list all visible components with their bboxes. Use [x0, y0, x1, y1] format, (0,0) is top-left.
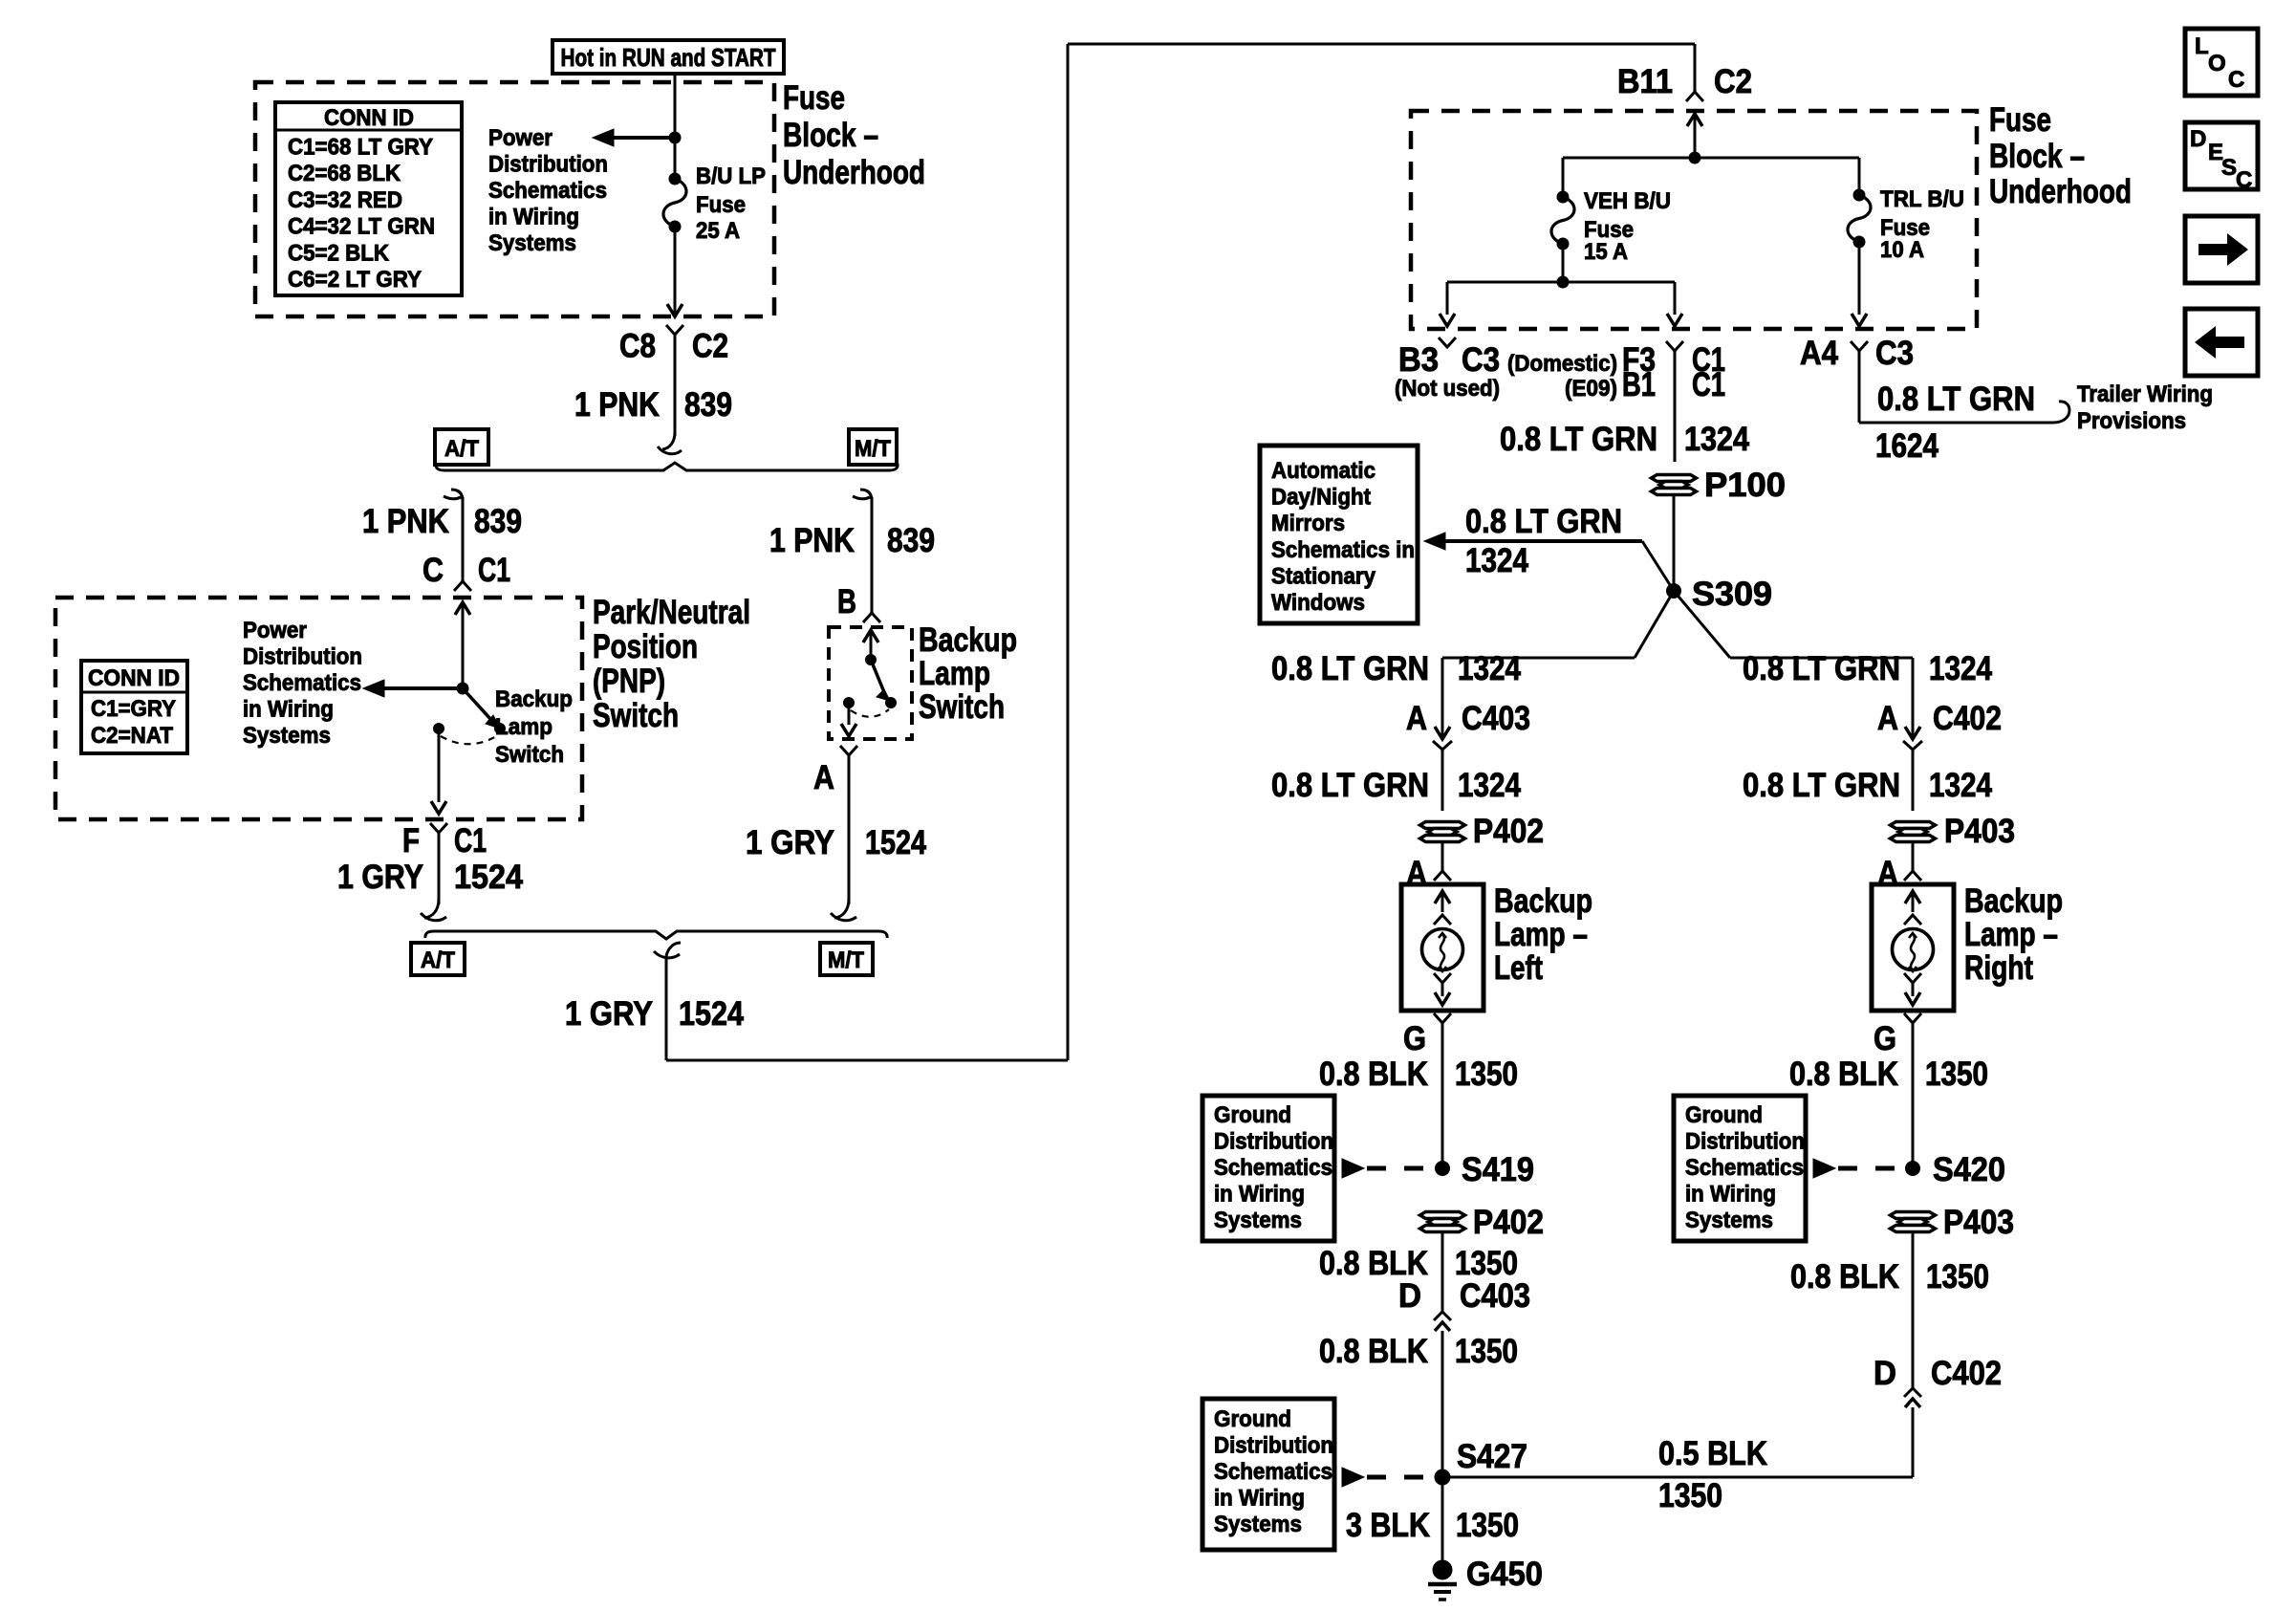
- wire: hot feed down into fuse block: [674, 74, 677, 179]
- svg-text:3 BLK: 3 BLK: [1346, 1507, 1430, 1544]
- svg-text:0.8 LT GRN: 0.8 LT GRN: [1500, 421, 1657, 458]
- svg-text:P402: P402: [1473, 1204, 1544, 1241]
- splice S420: [1906, 1162, 1920, 1176]
- nav icon DESC: [2185, 122, 2258, 193]
- svg-text:1 PNK: 1 PNK: [574, 386, 660, 424]
- wire: 1 PNK 839 main feed: [674, 335, 677, 436]
- svg-text:Switch: Switch: [495, 742, 564, 768]
- svg-text:1524: 1524: [679, 995, 744, 1033]
- svg-text:C1=GRY: C1=GRY: [91, 696, 176, 722]
- wire: P402 to lamp: [1441, 843, 1444, 871]
- svg-text:C2: C2: [692, 328, 728, 365]
- splice S427: [1435, 1469, 1450, 1485]
- A/T M/T option split brace (top): [436, 463, 898, 470]
- svg-text:C2: C2: [1714, 63, 1752, 100]
- label: Trailer Wiring Provisions: [2077, 381, 2213, 434]
- switch blade (M/T): [871, 660, 884, 692]
- wire: P403 to lamp: [1912, 843, 1915, 871]
- dashed ref arrow to S420: [1813, 1159, 1835, 1178]
- svg-text:C5=2 BLK: C5=2 BLK: [288, 240, 390, 266]
- svg-text:S419: S419: [1462, 1151, 1534, 1188]
- svg-text:1350: 1350: [1456, 1507, 1519, 1544]
- note: Power Distribution Schematics in Wiring Systems (fuse block): [488, 125, 608, 256]
- CONN ID table (PNP switch): [81, 661, 187, 753]
- svg-text:Mirrors: Mirrors: [1271, 511, 1345, 536]
- backup lamp left box: [1401, 884, 1484, 1011]
- svg-text:Power: Power: [488, 125, 552, 151]
- wire: bus to both fuses: [1563, 157, 1859, 160]
- svg-text:10 A: 10 A: [1880, 237, 1924, 263]
- svg-text:Lamp –: Lamp –: [1494, 916, 1588, 953]
- svg-text:Schematics: Schematics: [1214, 1155, 1332, 1181]
- fuse block underhood dashed box (left): [255, 82, 774, 316]
- switch travel dashed arc (M/T): [851, 709, 889, 717]
- svg-text:Provisions: Provisions: [2077, 408, 2186, 434]
- wire: P402 to C403 (ground): [1441, 1233, 1444, 1312]
- svg-text:Distribution: Distribution: [1214, 1129, 1333, 1155]
- switch contact (PNP output): [434, 724, 444, 734]
- node: VEH fuse output split: [1557, 276, 1569, 288]
- svg-text:Windows: Windows: [1271, 590, 1365, 616]
- connector D/C402 (ground, flow up): [1904, 1388, 1921, 1407]
- grommet P403 (lower): [1891, 1212, 1936, 1232]
- wire: 0.5 BLK 1350 crossover to right branch: [1442, 1476, 1913, 1479]
- wire: up the middle to top: [1067, 44, 1070, 1060]
- svg-text:P100: P100: [1704, 467, 1786, 504]
- fuse TRL B/U 10 A: [1848, 189, 1871, 248]
- wire: 0.8 LT GRN 1324 to P403: [1912, 750, 1915, 811]
- svg-text:1 GRY: 1 GRY: [337, 859, 423, 896]
- power label box "Hot in RUN and START": [552, 40, 784, 74]
- svg-text:VEH B/U: VEH B/U: [1584, 188, 1671, 214]
- note box: Ground Distribution (S427): [1202, 1399, 1334, 1550]
- A/T M/T option merge brace (bottom): [425, 931, 887, 939]
- fuse B/U LP 25 A: [663, 173, 686, 232]
- wire: S309 to left branch: [1635, 591, 1674, 658]
- svg-text:1 GRY: 1 GRY: [565, 995, 653, 1033]
- svg-text:1624: 1624: [1875, 427, 1939, 465]
- svg-text:Day/Night: Day/Night: [1271, 485, 1371, 511]
- svg-text:1324: 1324: [1929, 650, 1992, 687]
- svg-text:A: A: [1877, 700, 1898, 737]
- svg-text:Trailer Wiring: Trailer Wiring: [2077, 381, 2213, 407]
- svg-text:C2=68 BLK: C2=68 BLK: [288, 161, 401, 186]
- wire end curl (A/T branch bottom): [421, 899, 446, 921]
- svg-text:1324: 1324: [1929, 767, 1992, 804]
- wire: to B3 (not used): [1446, 282, 1449, 315]
- svg-text:S420: S420: [1933, 1151, 2005, 1188]
- svg-text:0.8 BLK: 0.8 BLK: [1319, 1056, 1428, 1093]
- svg-text:1324: 1324: [1458, 767, 1521, 804]
- svg-text:S309: S309: [1692, 576, 1772, 613]
- svg-text:C403: C403: [1460, 1277, 1530, 1315]
- switch travel dashed arc: [441, 735, 498, 744]
- option tag A/T (bottom): [411, 943, 465, 975]
- svg-text:Distribution: Distribution: [488, 152, 608, 178]
- wire: A/T branch 1 PNK 839: [444, 490, 463, 501]
- svg-text:C: C: [2228, 67, 2244, 93]
- svg-text:(Domestic): (Domestic): [1507, 351, 1617, 377]
- fuse block underhood dashed box (right): [1411, 111, 1977, 329]
- svg-text:1 PNK: 1 PNK: [769, 522, 855, 559]
- connector G (left lamp out): [1434, 1013, 1451, 1023]
- svg-text:in Wiring: in Wiring: [243, 697, 334, 723]
- svg-text:Automatic: Automatic: [1271, 458, 1375, 484]
- svg-text:S427: S427: [1457, 1438, 1527, 1475]
- note: Power Distribution Schematics in Wiring Systems (PNP): [243, 618, 362, 749]
- svg-text:25 A: 25 A: [696, 218, 740, 244]
- node: junction to power distribution: [669, 132, 681, 143]
- wire: 0.8 LT GRN 1324 down from F3/C1: [1674, 351, 1677, 462]
- connector G (right lamp out): [1904, 1013, 1921, 1023]
- wire: tap to power distribution (PNP): [382, 686, 463, 690]
- wire: TRL fuse output: [1858, 242, 1861, 315]
- svg-text:C6=2 LT GRY: C6=2 LT GRY: [288, 267, 422, 293]
- svg-text:Fuse: Fuse: [783, 79, 845, 117]
- svg-text:C402: C402: [1933, 700, 2002, 737]
- switch contact (M/T throw): [886, 698, 897, 708]
- svg-text:Fuse: Fuse: [1989, 101, 2051, 139]
- backup lamp right box: [1872, 884, 1954, 1011]
- svg-text:C3=32 RED: C3=32 RED: [288, 187, 402, 213]
- connector A/C403: [1433, 727, 1452, 750]
- grommet P100: [1652, 475, 1697, 495]
- svg-text:C3: C3: [1462, 341, 1500, 379]
- wire: switch input arrow: [863, 630, 878, 642]
- wire: 0.8 BLK 1350 to S420: [1912, 1023, 1915, 1168]
- svg-text:Backup: Backup: [495, 686, 573, 712]
- svg-text:Lamp: Lamp: [919, 655, 990, 692]
- wire: M/T branch 1 PNK 839: [853, 490, 872, 501]
- wire: P100 down to S309: [1673, 496, 1676, 591]
- svg-text:D: D: [2190, 126, 2206, 152]
- wire: S309 to right branch: [1674, 591, 1730, 658]
- svg-text:(E09): (E09): [1565, 376, 1617, 402]
- svg-text:1350: 1350: [1455, 1056, 1518, 1093]
- lamp bulb (right): [1893, 929, 1934, 970]
- connector B3/C3 stub (not used): [1439, 337, 1456, 347]
- wire: split bus under VEH fuse: [1447, 281, 1675, 284]
- wire: PNP output down: [438, 729, 441, 802]
- svg-text:Switch: Switch: [919, 688, 1005, 726]
- svg-text:Schematics in: Schematics in: [1271, 537, 1415, 563]
- svg-text:Left: Left: [1494, 949, 1543, 987]
- label: Park/Neutral Position (PNP) Switch: [593, 594, 750, 734]
- wire: 0.8 LT GRN 1324 to P402: [1441, 750, 1444, 811]
- svg-text:Underhood: Underhood: [1989, 173, 2132, 210]
- svg-text:0.8 LT GRN: 0.8 LT GRN: [1271, 767, 1429, 804]
- label: Fuse Block - Underhood (right): [1989, 101, 2132, 210]
- note box: Automatic Day/Night Mirrors Schematics in Stationary Windows: [1260, 446, 1418, 623]
- svg-text:Distribution: Distribution: [1214, 1433, 1333, 1459]
- svg-text:G: G: [1874, 1020, 1896, 1057]
- svg-text:1350: 1350: [1925, 1056, 1988, 1093]
- svg-text:1350: 1350: [1455, 1333, 1518, 1370]
- connector F3-B1/C1: [1666, 341, 1683, 351]
- connector D/C403 (ground, flow up): [1434, 1312, 1451, 1331]
- svg-text:A: A: [1406, 700, 1427, 737]
- connector into right lamp: [1904, 871, 1921, 881]
- wire: 0.8 BLK 1350 to S419: [1441, 1023, 1444, 1168]
- svg-text:Lamp: Lamp: [495, 714, 552, 740]
- svg-text:Block –: Block –: [783, 117, 878, 154]
- svg-text:C: C: [422, 552, 444, 589]
- option tag M/T (bottom): [820, 943, 873, 975]
- wire: 3 BLK 1350 to ground: [1441, 1477, 1444, 1560]
- svg-text:P402: P402: [1473, 813, 1544, 850]
- svg-text:B/U LP: B/U LP: [696, 163, 766, 189]
- svg-text:1 GRY: 1 GRY: [746, 824, 834, 861]
- option tag M/T: [849, 429, 897, 465]
- label: VEH B/U Fuse 15 A: [1584, 188, 1671, 265]
- lamp element (left): output chevron and arrow: [1434, 973, 1451, 983]
- svg-text:F: F: [402, 822, 420, 860]
- svg-text:C3: C3: [1875, 335, 1914, 372]
- svg-text:C8: C8: [619, 328, 656, 365]
- svg-text:0.8 BLK: 0.8 BLK: [1319, 1333, 1428, 1370]
- svg-text:M/T: M/T: [855, 436, 891, 462]
- splice S419: [1436, 1162, 1450, 1176]
- switch blade (PNP backup lamp switch): [463, 688, 491, 720]
- note box: Ground Distribution (S420): [1674, 1096, 1806, 1241]
- svg-text:1324: 1324: [1684, 421, 1749, 458]
- svg-text:A/T: A/T: [421, 947, 455, 973]
- svg-text:in Wiring: in Wiring: [1685, 1182, 1776, 1208]
- nav icon LOC: [2185, 29, 2258, 96]
- svg-text:(PNP): (PNP): [593, 663, 665, 700]
- svg-text:C4=32 LT GRN: C4=32 LT GRN: [288, 214, 435, 240]
- svg-text:Hot in RUN and START: Hot in RUN and START: [561, 43, 776, 72]
- node: feed split: [1689, 152, 1700, 163]
- svg-text:1350: 1350: [1658, 1477, 1722, 1514]
- svg-text:Switch: Switch: [593, 697, 679, 734]
- wire: down to connector B11/C2: [1694, 44, 1697, 92]
- dashed ref arrow to S427: [1342, 1468, 1364, 1487]
- svg-text:0.8 LT GRN: 0.8 LT GRN: [1465, 503, 1622, 540]
- wire: drop to TRL fuse: [1858, 158, 1861, 195]
- svg-text:15 A: 15 A: [1584, 239, 1628, 265]
- svg-text:P403: P403: [1944, 813, 2015, 850]
- svg-text:Right: Right: [1964, 949, 2033, 987]
- svg-text:839: 839: [887, 522, 935, 559]
- svg-text:Systems: Systems: [488, 230, 576, 256]
- fuse VEH B/U 15 A: [1551, 191, 1574, 250]
- svg-text:O: O: [2208, 51, 2226, 76]
- lamp bulb (left): [1422, 929, 1463, 970]
- svg-text:0.8 BLK: 0.8 BLK: [1790, 1258, 1899, 1295]
- connector A (M/T switch output): [840, 746, 857, 755]
- svg-text:Lamp –: Lamp –: [1964, 916, 2058, 953]
- svg-text:Systems: Systems: [1214, 1512, 1302, 1537]
- connector into backup lamp switch: [863, 613, 880, 622]
- svg-text:0.8 LT GRN: 0.8 LT GRN: [1877, 381, 2035, 418]
- svg-text:P403: P403: [1943, 1204, 2014, 1241]
- label: Backup Lamp Switch (inside PNP): [495, 686, 573, 768]
- svg-text:G450: G450: [1466, 1556, 1543, 1593]
- svg-text:C1: C1: [478, 552, 510, 589]
- svg-text:Schematics: Schematics: [1685, 1155, 1804, 1181]
- svg-text:G: G: [1403, 1020, 1426, 1057]
- dashed ref arrow to S419: [1342, 1159, 1364, 1178]
- switch contact (M/T common): [866, 655, 877, 665]
- svg-text:D: D: [1874, 1355, 1896, 1392]
- svg-text:A: A: [813, 759, 834, 796]
- svg-text:0.5 BLK: 0.5 BLK: [1658, 1435, 1767, 1472]
- svg-text:C1: C1: [454, 822, 487, 860]
- svg-text:Park/Neutral: Park/Neutral: [593, 594, 750, 631]
- connector A/C402: [1903, 727, 1922, 750]
- wire: to F3/C1: [1674, 282, 1677, 315]
- nav icon back arrow: [2185, 309, 2258, 376]
- svg-text:CONN ID: CONN ID: [88, 665, 180, 691]
- switch contact (PNP throw): [495, 724, 506, 734]
- nav icon forward arrow: [2185, 216, 2258, 283]
- wire: merged 1 GRY 1524 down and across to right section: [654, 943, 681, 958]
- svg-text:Ground: Ground: [1214, 1406, 1291, 1432]
- svg-text:1350: 1350: [1926, 1258, 1989, 1295]
- wire: across the top to fuse block right: [1068, 43, 1695, 46]
- label: TRL B/U Fuse 10 A: [1880, 186, 1964, 263]
- svg-text:Ground: Ground: [1214, 1102, 1291, 1128]
- svg-text:Schematics: Schematics: [488, 178, 607, 204]
- svg-text:Systems: Systems: [1214, 1208, 1302, 1233]
- wire: down to crossover: [1912, 1407, 1915, 1477]
- svg-text:C: C: [2236, 167, 2252, 193]
- svg-text:Power: Power: [243, 618, 307, 643]
- CONN ID table (fuse block): [275, 102, 462, 295]
- svg-text:B3: B3: [1398, 341, 1439, 379]
- svg-text:B: B: [837, 583, 856, 620]
- svg-text:Fuse: Fuse: [696, 192, 746, 218]
- svg-text:839: 839: [474, 503, 522, 540]
- wire end curl (M/T branch bottom): [831, 899, 856, 921]
- label: Backup Lamp - Right: [1964, 882, 2063, 987]
- svg-text:(Not used): (Not used): [1395, 376, 1500, 402]
- svg-text:Position: Position: [593, 628, 698, 665]
- wire: 0.8 BLK 1350 to S427: [1441, 1331, 1444, 1477]
- label: Fuse Block - Underhood (left): [783, 79, 925, 191]
- lamp element (right): input arrow and chevron: [1905, 891, 1920, 903]
- svg-text:1324: 1324: [1458, 650, 1521, 687]
- svg-text:0.8 LT GRN: 0.8 LT GRN: [1271, 650, 1429, 687]
- svg-text:Stationary: Stationary: [1271, 563, 1376, 589]
- note box: Ground Distribution (S419): [1202, 1096, 1334, 1241]
- svg-text:TRL B/U: TRL B/U: [1880, 186, 1964, 212]
- svg-text:839: 839: [684, 386, 732, 424]
- svg-text:D: D: [1398, 1277, 1421, 1315]
- wire: PNP switch input: [455, 602, 470, 615]
- connector B11/C2 (fuse block underhood input): [1686, 92, 1703, 101]
- wire: VEH fuse output: [1562, 244, 1565, 282]
- wire: M/T switch output: [848, 703, 851, 725]
- lamp element (left): input arrow and chevron: [1435, 891, 1450, 903]
- svg-text:0.8 BLK: 0.8 BLK: [1789, 1056, 1898, 1093]
- grommet P403 (upper): [1891, 822, 1936, 842]
- svg-text:Schematics: Schematics: [243, 670, 361, 696]
- svg-text:L: L: [2195, 33, 2209, 59]
- svg-text:0.8 LT GRN: 0.8 LT GRN: [1743, 767, 1900, 804]
- svg-text:Systems: Systems: [243, 723, 331, 749]
- switch contact (M/T output): [844, 698, 855, 708]
- svg-text:0.8 LT GRN: 0.8 LT GRN: [1743, 650, 1900, 687]
- svg-text:in Wiring: in Wiring: [1214, 1486, 1305, 1512]
- svg-text:B1: B1: [1622, 366, 1656, 403]
- svg-text:C1=68 LT GRY: C1=68 LT GRY: [288, 135, 433, 161]
- connector into left lamp: [1434, 871, 1451, 881]
- svg-text:Block –: Block –: [1989, 138, 2085, 175]
- svg-text:Schematics: Schematics: [1214, 1459, 1332, 1485]
- label: Backup Lamp Switch (M/T): [919, 621, 1017, 726]
- svg-text:Systems: Systems: [1685, 1208, 1773, 1233]
- splice S309: [1667, 584, 1681, 599]
- wire: P403 to C402 (ground): [1912, 1233, 1915, 1388]
- svg-text:B11: B11: [1617, 63, 1673, 100]
- svg-text:CONN ID: CONN ID: [324, 105, 414, 131]
- wire: fuse output down to box edge: [674, 227, 677, 315]
- connector C8/C2 (fuse block output): [666, 325, 683, 335]
- svg-text:Backup: Backup: [919, 621, 1017, 659]
- label: Backup Lamp - Left: [1494, 882, 1592, 987]
- svg-text:A/T: A/T: [444, 436, 479, 462]
- connector C/C1 into PNP switch: [454, 581, 471, 591]
- svg-text:Backup: Backup: [1964, 882, 2063, 920]
- wire: B11 feed into box: [1687, 114, 1702, 126]
- wire: 1 GRY 1524 (A/T branch): [438, 833, 441, 904]
- wire: 1 GRY 1524 (M/T branch): [848, 755, 851, 904]
- svg-text:C403: C403: [1462, 700, 1530, 737]
- svg-text:Distribution: Distribution: [1685, 1129, 1805, 1155]
- backup lamp switch dashed box (M/T): [829, 627, 912, 739]
- svg-text:1 PNK: 1 PNK: [362, 503, 449, 540]
- svg-text:C2=NAT: C2=NAT: [91, 723, 173, 749]
- svg-text:1524: 1524: [865, 824, 926, 861]
- ground G450: [1428, 1560, 1457, 1600]
- svg-text:M/T: M/T: [828, 947, 864, 973]
- option tag A/T: [435, 429, 488, 465]
- svg-text:S: S: [2221, 155, 2237, 181]
- park/neutral position switch dashed box: [55, 598, 582, 819]
- svg-text:in Wiring: in Wiring: [1214, 1182, 1305, 1208]
- wire end curl at A/T-M/T split: [658, 432, 682, 454]
- wire: drop to VEH fuse: [1562, 158, 1565, 197]
- grommet P402 (lower): [1420, 1212, 1465, 1232]
- svg-text:Distribution: Distribution: [243, 644, 362, 670]
- svg-text:Underhood: Underhood: [783, 154, 925, 191]
- label: B/U LP Fuse 25 A: [696, 163, 766, 244]
- svg-text:Ground: Ground: [1685, 1102, 1763, 1128]
- wire: 0.8 LT GRN 1624 to trailer provisions: [1858, 351, 1861, 423]
- svg-text:1524: 1524: [454, 859, 523, 896]
- wire: tap to power distribution schematics: [612, 136, 675, 140]
- svg-text:Backup: Backup: [1494, 882, 1592, 920]
- node: PNP switch common: [457, 683, 468, 694]
- svg-text:A4: A4: [1800, 335, 1838, 372]
- svg-text:in Wiring: in Wiring: [488, 205, 579, 230]
- svg-text:C402: C402: [1931, 1355, 2002, 1392]
- grommet P402 (upper): [1420, 822, 1465, 842]
- svg-text:1324: 1324: [1465, 542, 1528, 579]
- wire: tap to day/night mirror schematics: [1642, 541, 1674, 591]
- svg-text:C1: C1: [1692, 366, 1725, 403]
- lamp element (right): output chevron and arrow: [1904, 973, 1921, 983]
- connector A4/C3: [1851, 341, 1868, 351]
- connector F/C1 (PNP output): [430, 823, 447, 833]
